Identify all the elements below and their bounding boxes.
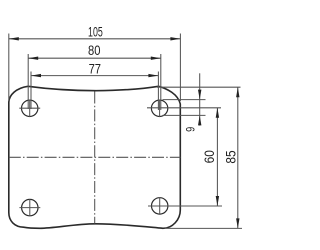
extension line plate top to right (for 85 and 9) [157, 86, 241, 88]
extension line left edge (105) [8, 34, 10, 102]
svg-text:77: 77 [89, 61, 102, 76]
arrow 80 right [151, 57, 161, 60]
arrow 77 left [31, 74, 41, 77]
svg-text:80: 80 [88, 43, 101, 58]
dimension 60 vertical line [216, 108, 218, 206]
hole bottom-left [22, 199, 38, 215]
hole top-left center marks [19, 107, 40, 109]
plate outline [9, 86, 181, 228]
arrow 60 bottom (points down) [216, 196, 219, 206]
svg-text:85: 85 [223, 150, 239, 163]
dimension line 77 [31, 75, 158, 77]
centerline horizontal (plate axis) [9, 156, 181, 158]
arrow 105 right [170, 37, 180, 40]
extension line right (77) [157, 72, 159, 111]
arrow 9 upper (points down to plate top line) [198, 90, 201, 100]
svg-text:9: 9 [186, 127, 198, 132]
extension line bottom hole center (for 60) [148, 205, 222, 207]
hole top-right center mark vertical [159, 100, 161, 117]
hole top-left [22, 100, 38, 116]
extension line hole top edge (for 9) [163, 99, 206, 101]
arrow 85 bottom (points down) [236, 218, 239, 228]
extension line left (77) [30, 72, 32, 110]
arrow 9 lower (points up to hole top line) [198, 115, 201, 125]
hole bottom-left center marks [19, 207, 40, 209]
arrow 77 right [148, 74, 158, 77]
extension line left (80) [27, 54, 29, 109]
extension line right edge (105) [179, 34, 181, 102]
arrow 85 top (points up) [236, 87, 239, 97]
extension line top hole center (for 60) [147, 107, 221, 109]
arrow 105 left [9, 37, 19, 40]
arrow 60 top (points up) [216, 108, 219, 118]
extension line right (80) [160, 54, 162, 110]
extension line hole bottom edge (for 9) [163, 114, 206, 116]
hole bottom-right center mark vertical [159, 197, 161, 214]
arrow 80 left [28, 57, 38, 60]
hole bottom-right [152, 198, 168, 214]
hole top-right [151, 100, 167, 116]
dimension line 80 [28, 57, 161, 59]
dimension 9 vertical line [199, 73, 201, 125]
extension line plate bottom to right (for 85) [165, 227, 242, 229]
centerline vertical (plate axis) [94, 92, 96, 224]
svg-text:105: 105 [88, 26, 103, 40]
dimension 85 vertical line [237, 87, 239, 228]
dimension line 105 [9, 38, 181, 40]
svg-text:60: 60 [201, 150, 217, 163]
